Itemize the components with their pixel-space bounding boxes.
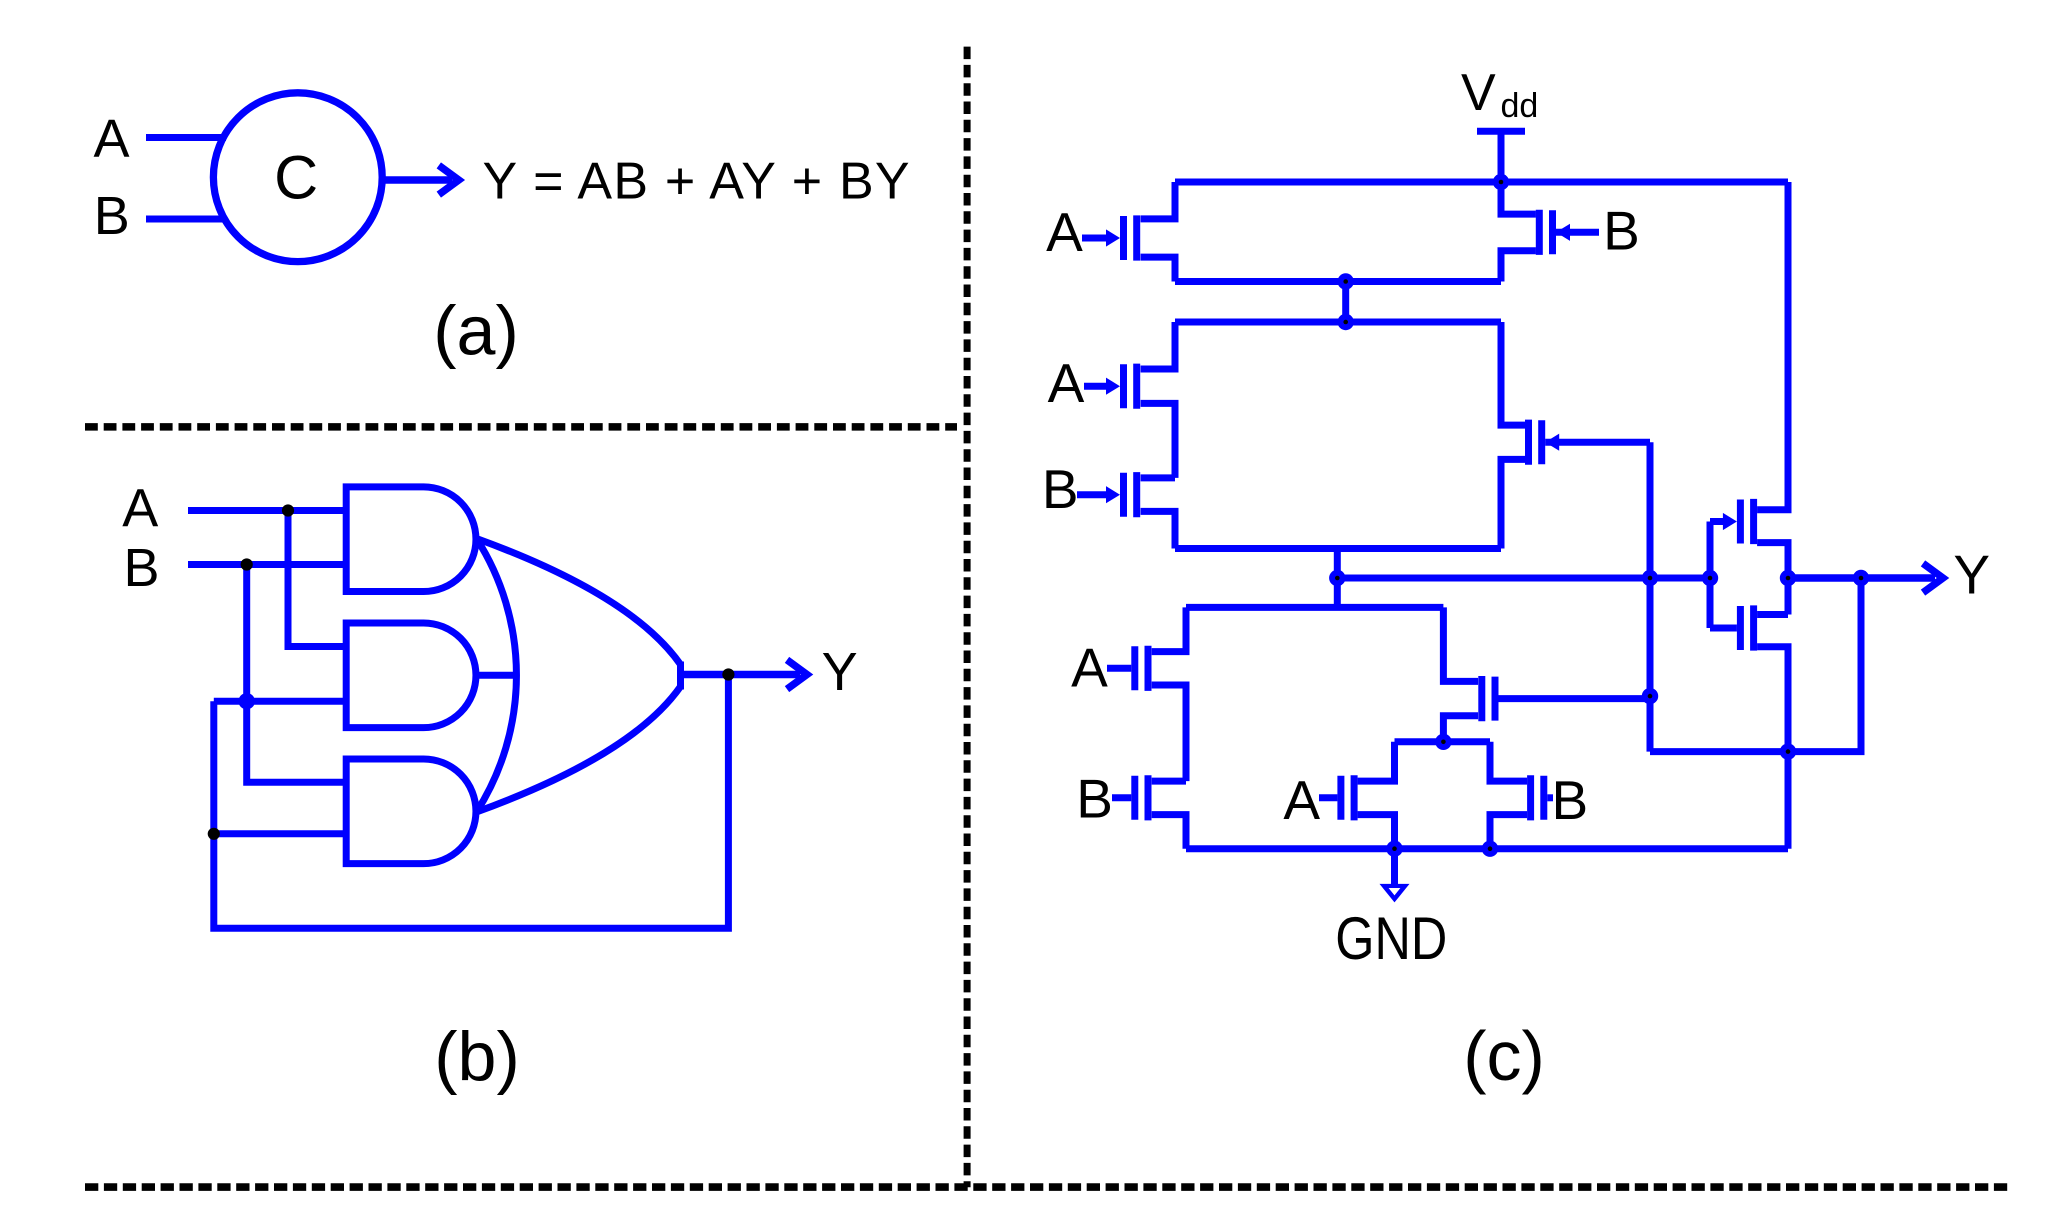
wire Q4 source lead: [1141, 474, 1175, 481]
svg-text:(a): (a): [433, 292, 519, 370]
OR gate G4 tip: [677, 662, 684, 690]
wire Q5 gate to keeper column: [1647, 442, 1654, 751]
OR gate G4 top edge: [477, 539, 681, 665]
OR gate G4 bottom edge: [477, 687, 681, 813]
wire feedback to AND2 (b): [214, 698, 350, 705]
transistor Q12 NMOS keeper: [1737, 606, 1744, 650]
transistor Q7 NMOS B: [1112, 794, 1131, 801]
wire Y output (b): [681, 671, 800, 678]
svg-text:A: A: [122, 479, 158, 539]
svg-text:dd: dd: [1501, 87, 1539, 125]
wire A input (a): [146, 134, 226, 141]
junction feedback to AND3 (b): [208, 828, 220, 840]
divider horizontal (a)/(b): [85, 423, 957, 431]
transistor Q6 NMOS A: [1107, 665, 1131, 672]
wire Q5 drain lead: [1501, 459, 1532, 548]
junction n2: [1338, 314, 1354, 330]
OR gate G4 back arc: [477, 539, 517, 813]
wire B input (a): [146, 216, 226, 223]
AND gate G2: [346, 623, 476, 728]
wire Vdd rail: [1175, 179, 1788, 186]
wire Q9 drain lead: [1358, 742, 1395, 781]
wire GND rail: [1186, 845, 1788, 852]
wire n1 to n2: [1342, 282, 1349, 323]
junction Vdd rail: [1493, 174, 1509, 190]
wire Q7 drain lead: [1152, 778, 1186, 785]
junction keeper column node: [1642, 570, 1658, 586]
wire Q1 source lead: [1141, 182, 1175, 219]
junction Y feedback (c): [1853, 570, 1869, 586]
wire AND2 output to OR: [474, 672, 519, 679]
wire Q11 drain lead: [1757, 543, 1788, 615]
wire Q10 source lead: [1490, 815, 1527, 849]
wire feedback to AND3 (b): [214, 830, 350, 837]
junction node rail mid: [1435, 734, 1451, 750]
wire Q4 drain lead: [1141, 511, 1175, 548]
wire Q7 source lead: [1152, 815, 1186, 849]
wire Q5 source lead: [1501, 322, 1532, 425]
junction internal node left: [1329, 570, 1345, 586]
junction Y node keeper: [1780, 570, 1796, 586]
junction GND stem: [1386, 841, 1402, 857]
svg-text:A: A: [1046, 201, 1083, 263]
wire node rail mid: [1395, 738, 1491, 745]
svg-text:V: V: [1461, 64, 1496, 122]
wire Q2 source lead: [1501, 182, 1536, 214]
junction Y feedback (b): [722, 668, 734, 680]
junction keeper source bottom: [1780, 743, 1796, 759]
wire Y feedback loop (b): [214, 675, 729, 929]
wire internal node: [1337, 575, 1710, 582]
wire Q12 source lead: [1757, 647, 1788, 849]
wire keeper NMOS gate lead: [1710, 625, 1737, 632]
svg-text:Y = AB + AY + BY: Y = AB + AY + BY: [483, 152, 911, 210]
svg-text:B: B: [123, 538, 159, 598]
divider horizontal bottom: [85, 1183, 2010, 1191]
wire Q3 source lead: [1141, 322, 1175, 369]
wire node n3 rail: [1175, 545, 1501, 552]
wire A input (b): [188, 507, 350, 514]
wire n3 to node rail: [1334, 549, 1341, 608]
svg-text:A: A: [1283, 769, 1320, 831]
svg-text:(b): (b): [434, 1017, 520, 1095]
C-element U1 circle symbol: [213, 93, 382, 262]
wire Y feedback (c): [1650, 578, 1861, 752]
transistor Q1 PMOS A: [1082, 235, 1114, 242]
ground GND stem: [1391, 849, 1398, 885]
wire Q6 drain lead: [1152, 607, 1186, 651]
svg-text:Y: Y: [1953, 544, 1990, 606]
transistor Q4 PMOS B: [1077, 491, 1114, 498]
transistor Q10 NMOS B: [1547, 794, 1553, 801]
junction B (b): [241, 558, 253, 570]
wire Q6 source lead: [1152, 685, 1186, 781]
wire Q1 drain lead: [1141, 257, 1175, 281]
AND gate G3: [346, 759, 476, 864]
svg-text:B: B: [1076, 768, 1113, 830]
transistor Q8 NMOS pass: [1499, 695, 1651, 702]
wire B input (b): [188, 561, 350, 568]
wire node n1 rail: [1175, 278, 1501, 285]
transistor Q2 PMOS B: [1556, 229, 1599, 236]
ground GND symbol: [1380, 884, 1410, 903]
wire keeper PMOS gate lead: [1710, 518, 1723, 525]
svg-text:B: B: [1551, 769, 1588, 831]
AND gate G1: [346, 487, 476, 592]
wire keeper gate column: [1707, 522, 1714, 629]
junction B4 source: [1482, 841, 1498, 857]
svg-text:B: B: [1042, 458, 1079, 520]
svg-text:A: A: [1071, 637, 1108, 699]
wire Q10 drain lead: [1490, 742, 1527, 781]
wire B to AND3 (b): [247, 565, 350, 783]
wire Q8 source lead: [1443, 716, 1478, 742]
transistor Q5 PMOS keeper-pull: [1545, 439, 1650, 446]
wire node rail row3: [1186, 604, 1443, 611]
wire Q2 drain lead: [1501, 251, 1536, 282]
junction n1: [1338, 273, 1354, 289]
svg-text:B: B: [94, 186, 130, 246]
svg-text:A: A: [93, 109, 129, 169]
svg-text:B: B: [1603, 200, 1640, 262]
svg-text:A: A: [1048, 352, 1085, 414]
wire output arrow (a): [382, 176, 452, 183]
wire Y output (c): [1788, 574, 1935, 581]
junction feedback crossing B (b): [239, 693, 255, 709]
wire node n2 rail: [1175, 319, 1501, 326]
wire Q3 drain lead: [1141, 403, 1175, 478]
Vdd supply bar: [1477, 128, 1525, 135]
wire A to AND2 (b): [288, 511, 350, 647]
wire Vdd stem: [1498, 131, 1505, 182]
transistor Q3 PMOS A: [1084, 383, 1114, 390]
divider vertical left/right: [964, 47, 971, 1188]
junction internal node keeper gate: [1702, 570, 1718, 586]
junction A (b): [282, 504, 294, 516]
svg-text:(c): (c): [1463, 1017, 1545, 1095]
wire Q11 source lead: [1757, 182, 1788, 510]
junction Q8 gate node: [1642, 688, 1658, 704]
transistor Q11 PMOS keeper: [1723, 513, 1737, 530]
wire Q9 source lead: [1358, 815, 1395, 849]
wire Q12 drain lead: [1757, 611, 1788, 618]
transistor Q9 NMOS A: [1319, 794, 1337, 801]
svg-text:GND: GND: [1335, 905, 1447, 972]
wire Q8 drain lead: [1443, 607, 1478, 681]
svg-text:Y: Y: [822, 642, 858, 702]
svg-text:C: C: [274, 143, 318, 211]
